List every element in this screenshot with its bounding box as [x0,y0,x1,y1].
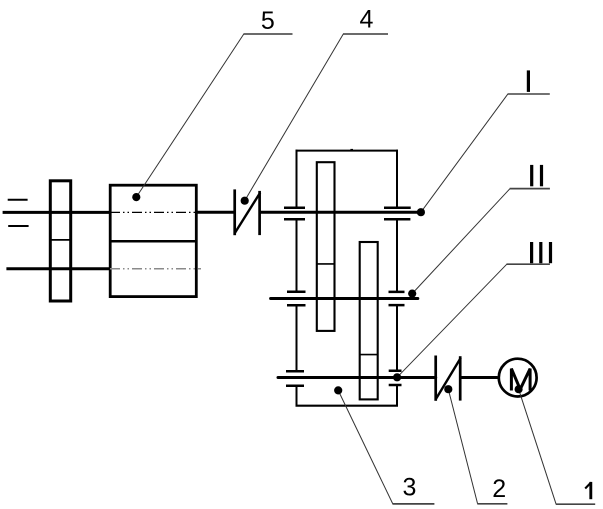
label III (bars) [530,242,533,263]
wire: output shaft upper-left stub [3,211,110,214]
bearing caps right wall shaft III [389,371,402,385]
node dot 3 [334,386,342,394]
coupling 4 diagonal [235,193,260,233]
wire: lower-left shaft stub [6,267,109,270]
gear block on shaft I (tall rectangle) [317,162,335,331]
wire: shaft from gear unit 5 to coupling 4 [197,211,235,214]
coupling 2 right bar [459,356,462,400]
node: small junction nub on housing top edge [350,149,353,151]
leader line 3 [338,390,393,504]
label 1 [589,482,592,499]
node dot shaft II [408,290,416,298]
svg-text:2: 2 [492,475,506,503]
leader line 4 [245,34,344,201]
gearbox housing bottom edge [296,405,399,407]
leader line 5 [136,34,244,197]
shaft III [278,376,436,379]
svg-text:4: 4 [359,5,373,33]
coupling 2 diagonal [436,358,461,399]
chain drive sprocket block (left narrow rectangle) [50,181,70,301]
motor M circle [499,359,537,397]
node dot 5 [132,193,140,201]
node dot shaft I [417,208,425,216]
wire: break mark below upper-left shaft [8,225,28,227]
leader line I [421,94,508,212]
bearing caps left wall shaft II [287,292,306,306]
coupling 4 left bar [233,189,236,235]
coupling 4 right bar [258,191,261,235]
bearing caps left wall shaft III [286,371,304,386]
gear block 2 divider [360,354,378,356]
centerline lower shaft (gray dash-dot) [110,268,201,270]
svg-text:3: 3 [403,473,417,501]
node dot 1 [515,385,523,393]
gearbox housing top edge [296,150,399,152]
gear unit 5 housing (big rectangle) [110,185,196,296]
gear block 1 divider [317,263,335,265]
node dot shaft III [393,373,401,381]
wire: shaft coupling2 to motor [460,376,497,379]
shaft II [271,297,418,300]
centerline upper shaft (dash-dot) [110,211,201,213]
leader line 1 [519,389,557,504]
bearing caps right wall shaft I [384,208,411,219]
svg-text:5: 5 [261,7,275,35]
node dot 2 [444,385,452,393]
chain drive divider line [50,239,71,241]
wire: break mark above upper-left shaft [8,199,28,201]
node dot 4 [241,197,249,205]
bearing caps right wall shaft II [389,292,405,305]
shaft I [260,211,418,214]
leader line II [412,189,510,294]
gearbox left wall segments [296,150,298,407]
leader line 2 [448,389,477,504]
leader line III [397,264,507,377]
motor letter M [511,369,530,391]
label I (bar) [527,70,530,92]
bearing caps left wall shaft I [284,208,305,219]
gear block on shafts II-III (tall rectangle) [360,242,378,399]
gear unit 5 divider [110,240,196,243]
coupling 2 left bar [434,356,437,401]
gearbox right wall segments [396,150,398,407]
label II (bars) [530,165,533,186]
